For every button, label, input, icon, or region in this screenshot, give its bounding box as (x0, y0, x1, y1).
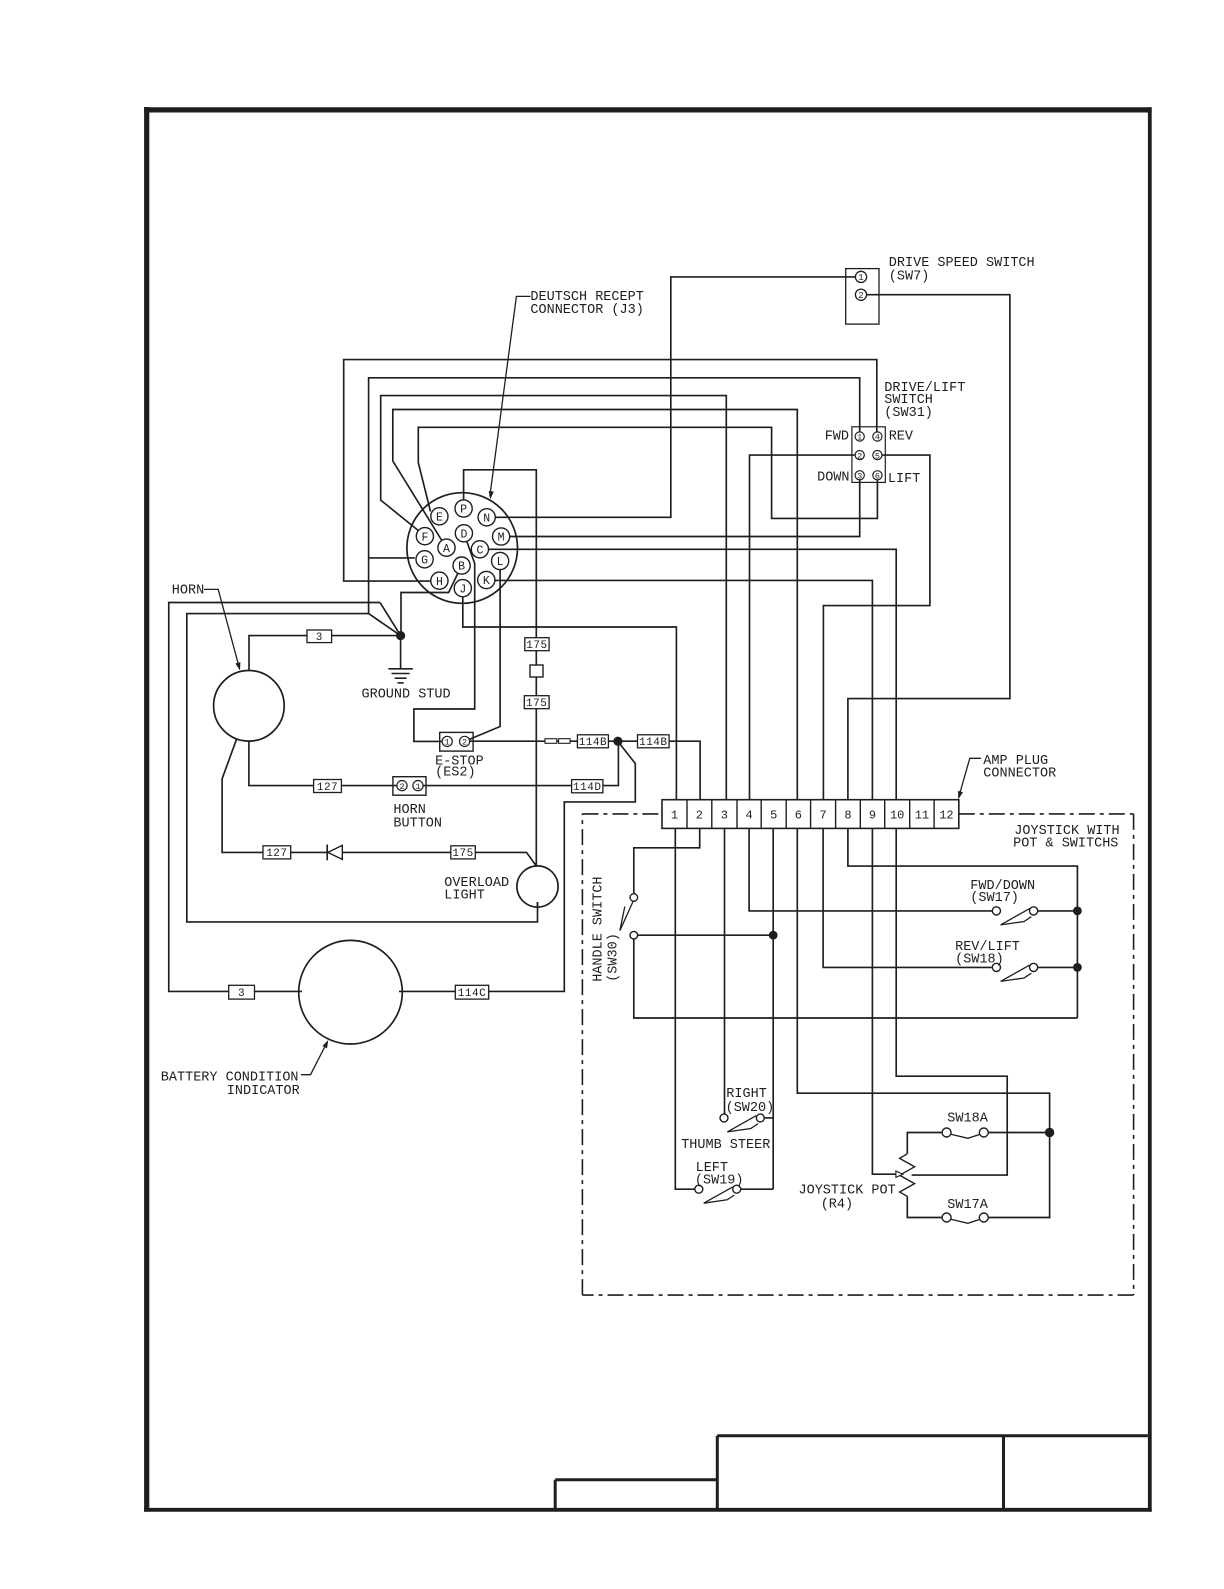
SW17A contacts and link (951, 1219, 980, 1223)
wire: J3 pin H to SW31 pin 4 (line 1) (344, 360, 877, 581)
SW7 pin 1 (855, 271, 866, 282)
svg-text:114C: 114C (458, 988, 486, 1000)
wire label 175 lower (524, 696, 549, 709)
wire: SW7 pin 2 to AMP cell 8 (848, 295, 1010, 800)
svg-text:B: B (458, 561, 465, 574)
joystick dashed box top-right segment (959, 813, 1134, 815)
J3 pin C (471, 541, 488, 558)
svg-text:(ES2): (ES2) (435, 766, 476, 781)
AMP cell divider 9 (884, 800, 886, 829)
J3 pin A (438, 539, 455, 556)
J3 pin E (431, 508, 448, 525)
svg-text:LIFT: LIFT (888, 472, 920, 487)
svg-text:9: 9 (869, 809, 876, 823)
J3 pin N (478, 509, 495, 526)
svg-text:(SW30): (SW30) (607, 933, 622, 982)
svg-text:(SW20): (SW20) (726, 1101, 775, 1116)
SW31 pin 5 (873, 451, 882, 460)
svg-text:(SW17): (SW17) (970, 891, 1019, 906)
svg-text:1: 1 (858, 273, 863, 283)
J3 pin G (416, 551, 433, 568)
joystick dashed box right edge (1133, 814, 1135, 1295)
horn button pin 2 (397, 781, 407, 791)
svg-text:LIGHT: LIGHT (444, 889, 485, 904)
svg-text:175: 175 (452, 848, 473, 860)
svg-text:(SW7): (SW7) (889, 270, 930, 285)
border frame top edge (144, 107, 1152, 112)
joystick pot R4 zigzag resistor (900, 1154, 915, 1197)
svg-text:175: 175 (526, 640, 547, 652)
ground stud junction dot (396, 631, 405, 640)
wire: SW18 right to rail dot (1034, 966, 1078, 968)
svg-text:8: 8 (844, 809, 851, 823)
wire: AMP cell 6 to SW18A junction dot (797, 828, 1049, 1132)
svg-text:3: 3 (238, 988, 245, 1000)
battery condition indicator circle (299, 940, 403, 1044)
junction dot SW18A/SW17A (1045, 1128, 1054, 1137)
svg-text:HORN: HORN (172, 584, 204, 599)
wire: AMP cell 2 to handle switch top (634, 828, 700, 897)
horn button box (393, 777, 426, 796)
leader: AMP PLUG CONNECTOR label to strip (959, 758, 981, 797)
wire label 3 (battery) (229, 985, 255, 999)
pot wiper arrow (896, 1171, 903, 1177)
svg-text:THUMB STEER: THUMB STEER (681, 1138, 770, 1153)
J3 pin D (455, 525, 472, 542)
svg-text:11: 11 (915, 809, 929, 823)
AMP cell divider 7 (835, 800, 837, 829)
AMP cell divider 6 (810, 800, 812, 829)
svg-text:(SW19): (SW19) (695, 1173, 744, 1188)
SW31 pin 2 (855, 451, 864, 460)
svg-text:4: 4 (745, 809, 752, 823)
J3 pin P (455, 500, 472, 517)
wire: J3 pin K to AMP cell 9 (486, 580, 872, 799)
svg-text:4: 4 (875, 433, 880, 443)
J3 pin F (416, 528, 433, 545)
title block small box left (554, 1480, 557, 1508)
wire: horn 2nd terminal to 127/diode/175 row (222, 739, 536, 866)
diode on 127/175 wire (326, 845, 328, 861)
wire: horn button to junction dot above 114D (423, 741, 618, 785)
title block divider right (1002, 1436, 1005, 1509)
J3 pin J (454, 580, 471, 597)
svg-text:SW18A: SW18A (947, 1112, 988, 1127)
wire: handle switch lower contact down to bottom rail (634, 935, 1078, 1018)
title block small box top (555, 1478, 717, 1481)
svg-text:M: M (498, 532, 505, 545)
svg-text:5: 5 (770, 809, 777, 823)
svg-text:REV: REV (889, 429, 914, 444)
leader: BATTERY CONDITION INDICATOR label to circle (301, 1042, 328, 1075)
wire label 3 (horn) (307, 630, 332, 643)
E-STOP ES2 box (440, 732, 473, 751)
border frame left edge (144, 107, 149, 1512)
wire: J3 pin G branch to vertical (369, 557, 415, 559)
svg-text:1: 1 (445, 738, 450, 748)
wire label 114B right (638, 735, 670, 748)
wire: overload light bottom drop (537, 902, 539, 908)
svg-text:G: G (421, 554, 428, 567)
ground stud symbol (400, 636, 402, 669)
border frame bottom edge (144, 1508, 1152, 1512)
wire: J3 pin D to E-STOP pin 1 (414, 533, 475, 741)
svg-text:JOYSTICK POT: JOYSTICK POT (799, 1183, 896, 1198)
svg-text:SW17A: SW17A (947, 1198, 988, 1213)
joystick dashed box top-left segment (582, 813, 662, 815)
svg-text:(R4): (R4) (821, 1198, 853, 1213)
svg-text:10: 10 (890, 809, 904, 823)
handle switch SW30 upper contact (630, 894, 638, 902)
wire: E-STOP pin 2 to AMP cell 2 (114B row) (465, 741, 700, 800)
svg-text:POT & SWITCHS: POT & SWITCHS (1013, 837, 1118, 852)
wire: J3 pin C to AMP cell 10 (480, 549, 896, 799)
AMP plug connector strip (662, 800, 959, 829)
AMP cell divider 2 (711, 800, 713, 829)
horn button pin 1 (413, 781, 423, 791)
LEFT switch SW19 contacts and lever (704, 1187, 733, 1203)
svg-text:127: 127 (266, 848, 287, 860)
svg-text:DOWN: DOWN (817, 470, 849, 485)
svg-text:5: 5 (875, 451, 880, 461)
SW18A contacts and link (951, 1134, 980, 1138)
E-STOP pin 1 (442, 736, 452, 746)
svg-text:GROUND STUD: GROUND STUD (362, 687, 451, 702)
wire: AMP cell 10 to joystick pot right tap (896, 828, 1007, 1175)
svg-text:2: 2 (696, 809, 703, 823)
wire: J3 pin M to SW31 pin 3 (501, 475, 860, 536)
wire: AMP cell 5 down through junction to thumb steer right rail (772, 828, 774, 1189)
drive/lift switch SW31 box (852, 427, 885, 483)
wire label 114D (572, 780, 603, 793)
svg-text:2: 2 (462, 738, 467, 748)
wire: pot top to SW18A left (907, 1133, 946, 1154)
svg-text:6: 6 (795, 809, 802, 823)
inline connector square on 175 wire (530, 665, 543, 677)
svg-text:H: H (436, 576, 443, 589)
svg-text:C: C (476, 544, 483, 557)
svg-text:1: 1 (857, 433, 862, 443)
SW7 pin 2 (855, 289, 866, 300)
wire: J3 pin L to E-STOP pin 2 (465, 561, 501, 741)
svg-text:1: 1 (415, 782, 420, 792)
wire: J3 pin A to AMP cell 6 (line 4) (393, 410, 798, 800)
wire: SW18A right to junction dot (984, 1132, 1050, 1134)
svg-text:3: 3 (721, 809, 728, 823)
AMP cell divider 1 (686, 800, 688, 829)
wire label 114B left (577, 735, 608, 748)
svg-text:6: 6 (875, 472, 880, 482)
AMP cell divider 4 (760, 800, 762, 829)
wire label 175 upper (525, 638, 549, 651)
border frame right edge (1148, 107, 1152, 1511)
handle switch SW30 lower contact (630, 931, 638, 939)
svg-text:1: 1 (671, 809, 678, 823)
svg-text:(SW18): (SW18) (955, 952, 1004, 967)
joystick dashed box bottom edge (582, 1294, 1133, 1296)
leader: HORN label to horn circle (204, 589, 240, 668)
wire: J3 pin J to AMP cell 1 (463, 588, 677, 800)
J3 pin M (493, 528, 510, 545)
svg-text:175: 175 (526, 698, 547, 710)
SW31 pin 6 (873, 471, 882, 480)
svg-text:RIGHT: RIGHT (726, 1087, 767, 1102)
AMP cell divider 5 (785, 800, 787, 829)
junction dot SW17 right rail (1073, 907, 1082, 916)
svg-text:HANDLE SWITCH: HANDLE SWITCH (592, 876, 607, 981)
AMP cell divider 8 (859, 800, 861, 829)
J3 pin K (478, 571, 495, 588)
drive speed switch SW7 box (846, 269, 879, 325)
wire label 127 horn button (314, 780, 342, 793)
FWD/DOWN switch SW17 contacts and lever (1001, 909, 1030, 925)
junction dot SW18 right rail (1073, 963, 1082, 972)
AMP cell divider 11 (933, 800, 935, 829)
handle switch lever (620, 902, 633, 931)
wire: left rail 2 (y=613.6 to overload bottom loop) (187, 614, 538, 922)
wire: AMP cell 9 to pot wiper (872, 828, 896, 1174)
wire: J3 pin P to 175 chain down to overload light (464, 470, 537, 866)
J3 pin B (453, 557, 470, 574)
wire: horn bottom to horn button (249, 741, 397, 785)
AMP cell divider 10 (909, 800, 911, 829)
wire: handle switch lower contact to cell5 junction (634, 934, 773, 936)
wire: J3 pin N to SW7 pin 1 (487, 277, 861, 517)
inline splice symbol (545, 739, 557, 744)
wire: SW18A junction dot down to SW17A right (984, 1133, 1050, 1218)
svg-text:P: P (460, 504, 467, 517)
svg-text:2: 2 (857, 451, 862, 461)
wire: AMP cell 4 to FWD/DOWN SW17 left (749, 828, 996, 911)
svg-text:3: 3 (857, 472, 862, 482)
svg-text:3: 3 (316, 632, 323, 644)
svg-text:A: A (443, 543, 450, 556)
wire label 127 diode row (263, 846, 291, 859)
svg-text:F: F (421, 531, 428, 544)
wire: SW20 right contact to rail (760, 1117, 773, 1119)
AMP cell divider 3 (736, 800, 738, 829)
svg-text:12: 12 (939, 809, 953, 823)
junction dot handle/cell5 (769, 931, 778, 940)
svg-text:CONNECTOR: CONNECTOR (983, 767, 1056, 782)
svg-text:INDICATOR: INDICATOR (227, 1084, 300, 1099)
junction dot 114B (613, 737, 622, 746)
svg-text:2: 2 (399, 782, 404, 792)
wire: J3 pin F to AMP cell 3 (line 3) (381, 396, 727, 800)
wire: pot bottom to SW17A left (907, 1196, 946, 1217)
wire: AMP cell 1 to SW19 left (675, 828, 699, 1189)
wire: 114B junction to 114C to battery right (399, 744, 635, 992)
wire: SW19 right contact to rail (737, 1188, 774, 1190)
horn circle (214, 671, 285, 742)
wire: AMP cell 7 to REV/LIFT SW18 left (823, 828, 996, 967)
J3 pin H (431, 572, 448, 589)
wire: J3 pin B to ground junction (401, 566, 462, 636)
wire label 175 diode row (451, 846, 476, 859)
wire: J3 pin E to SW31 pin 6 (line 5) (418, 427, 877, 518)
svg-text:N: N (483, 512, 490, 525)
title block top line (717, 1434, 1148, 1437)
svg-text:FWD: FWD (825, 429, 849, 444)
wire: SW31 pin 1 to ground junction (line 2) (369, 378, 860, 636)
svg-text:D: D (460, 528, 467, 541)
DEUTSCH connector J3 body (407, 493, 518, 604)
svg-text:(SW31): (SW31) (884, 406, 933, 421)
svg-text:2: 2 (858, 291, 863, 301)
wire label 114C (455, 985, 488, 999)
svg-text:E: E (436, 511, 443, 524)
overload light circle (517, 866, 558, 907)
REV/LIFT switch SW18 contacts and lever (1001, 965, 1030, 981)
wire: ground junction to horn top with label 3 (249, 636, 401, 671)
svg-text:J: J (459, 583, 466, 596)
svg-text:114B: 114B (579, 737, 607, 749)
wire: diagonal left rail 1 into ground junction (380, 603, 401, 636)
J3 pin L (492, 552, 509, 569)
wire: SW17 right to rail dot (1034, 910, 1078, 912)
svg-text:114B: 114B (639, 737, 667, 749)
svg-text:CONNECTOR (J3): CONNECTOR (J3) (530, 303, 643, 318)
leader: DEUTSCH RECEPT CONNECTOR label to J3 (490, 296, 531, 496)
wire: AMP cell 3 to SW20 left (724, 828, 726, 1118)
RIGHT switch SW20 contacts and lever (727, 1116, 756, 1132)
joystick dashed box left edge (581, 814, 583, 1295)
svg-text:127: 127 (317, 782, 338, 794)
wire: left rail 1 (y=602.5 to battery left) (169, 603, 380, 992)
SW31 pin 3 (855, 471, 864, 480)
SW31 pin 1 (855, 432, 864, 441)
E-STOP pin 2 (460, 736, 470, 746)
svg-text:7: 7 (819, 809, 826, 823)
svg-text:L: L (497, 556, 504, 569)
svg-text:114D: 114D (573, 782, 601, 794)
SW31 pin 4 (873, 432, 882, 441)
wire: AMP cell 8 to right rail through SW17/SW18 junction dots (848, 828, 1078, 1018)
svg-text:BUTTON: BUTTON (393, 817, 442, 832)
svg-text:K: K (483, 575, 490, 588)
title block divider left (716, 1436, 719, 1509)
wire: SW31 pin 2 to AMP cell 4 (750, 455, 860, 800)
wire: SW31 pin 5 to AMP cell 7 (823, 455, 930, 800)
